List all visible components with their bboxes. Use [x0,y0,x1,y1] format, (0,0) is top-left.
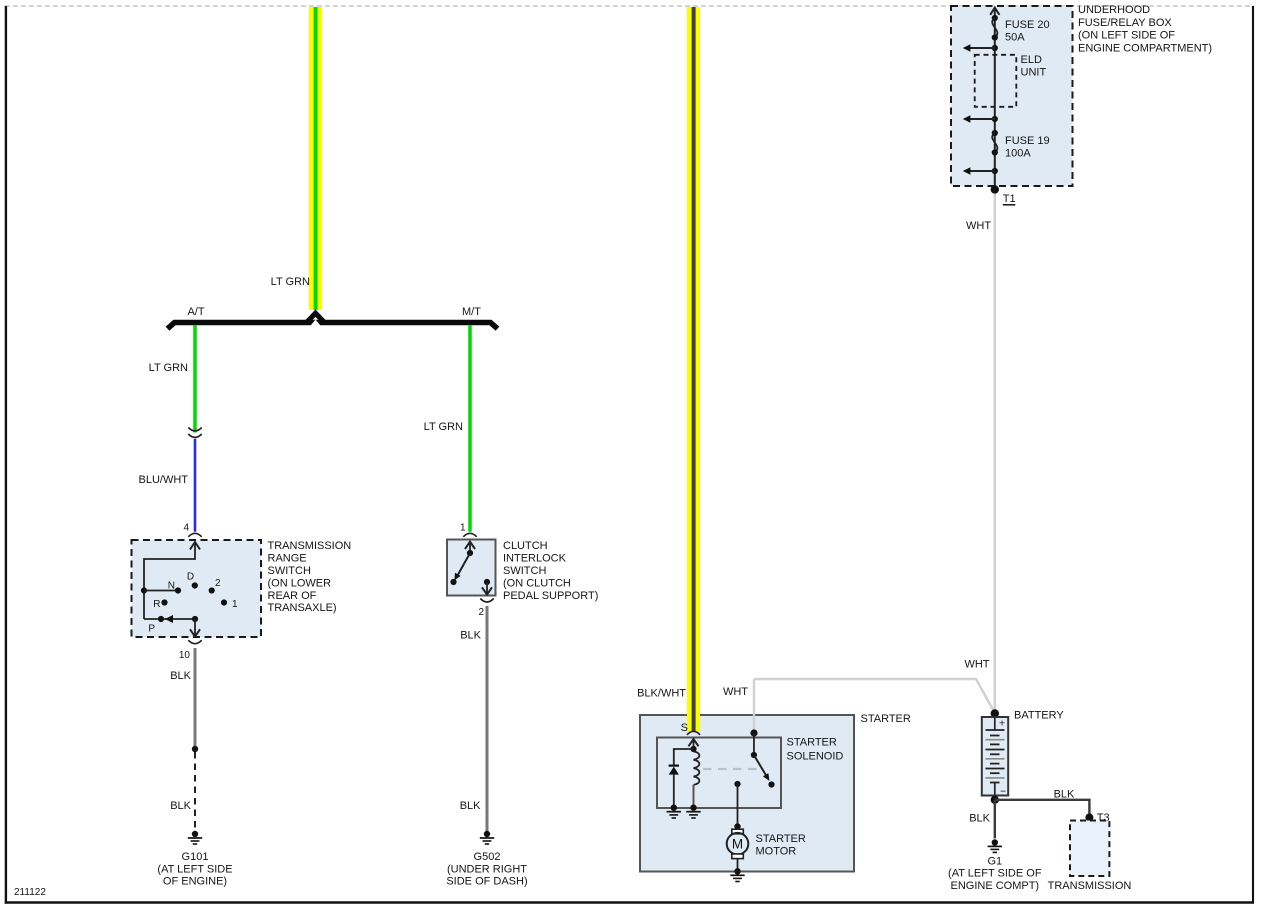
underhood fuse/relay box [951,6,1073,186]
svg-text:BLK: BLK [1054,788,1075,800]
svg-text:N: N [168,581,175,592]
svg-text:ENGINE COMPARTMENT): ENGINE COMPARTMENT) [1078,43,1212,55]
svg-text:LT GRN: LT GRN [424,421,463,433]
pin 10 connector arc [188,640,201,644]
node coil ground [690,805,696,811]
node tap3 [992,168,998,174]
clutch interlock switch box [447,540,496,596]
node fuse20 top [992,15,998,21]
svg-text:LT GRN: LT GRN [149,362,188,374]
ground G1 [988,839,1002,852]
switch blade [458,553,471,576]
blade arrowhead [763,773,770,781]
splice chevron [307,313,325,322]
svg-text:1: 1 [232,599,238,610]
node tap2 [992,116,998,122]
top arrow up [990,8,999,15]
battery box [982,717,1008,796]
diode D1 [669,766,679,808]
exit arrow pin 2 [482,587,492,594]
node blade pivot [467,550,473,556]
svg-text:RANGE: RANGE [268,553,307,565]
wire BLK G502 [486,606,489,831]
tap3 arrow left [963,167,995,175]
bottom border [5,901,1254,904]
entry arrow pin 1 [465,542,475,549]
coil L1 [694,751,700,785]
svg-text:ELD: ELD [1021,54,1042,66]
solenoid switch blade [754,755,766,775]
svg-text:UNIT: UNIT [1021,66,1047,78]
pin 1 connector arc [463,533,476,537]
svg-text:T1: T1 [1003,193,1016,205]
svg-text:STARTER: STARTER [756,833,806,845]
starter box [640,715,854,872]
node terminal T1 [991,185,999,193]
svg-text:G502: G502 [474,851,501,863]
wire P row [144,618,195,620]
wire BLK/WHT core [692,7,696,731]
node common-N junction [141,587,147,593]
node P contact [158,616,164,622]
svg-text:TRANSAXLE): TRANSAXLE) [268,602,337,614]
wire BLK/WHT (yellow highlight) [687,7,700,731]
node diode ground [671,805,677,811]
svg-text:PEDAL SUPPORT): PEDAL SUPPORT) [503,590,598,602]
splice notch [310,320,320,326]
svg-text:BLK: BLK [170,800,191,812]
transmission range switch box [132,540,262,637]
solenoid entry arrow [689,739,699,746]
ground symbol left [667,812,681,818]
svg-text:SOLENOID: SOLENOID [787,750,844,762]
wire LT GRN trunk (yellow highlight) [309,7,322,310]
node fuse19 top [992,130,998,136]
node 1 contact [221,599,227,605]
node 2 contact [209,587,215,593]
svg-text:(AT LEFT SIDE OF: (AT LEFT SIDE OF [948,868,1042,880]
wire BLK battery to G1 [994,800,996,839]
svg-text:(ON LEFT SIDE OF: (ON LEFT SIDE OF [1078,30,1175,42]
wire pin 2 drop [486,582,488,594]
wire LT GRN A/T branch [193,326,197,433]
svg-text:10: 10 [179,650,191,661]
ground symbol motor [730,875,744,881]
svg-text:+: + [999,718,1005,730]
svg-text:OF ENGINE): OF ENGINE) [163,876,227,888]
node switch top [750,729,757,736]
wire WHT horizontal run [754,679,995,713]
svg-text:(AT LEFT SIDE: (AT LEFT SIDE [157,863,232,875]
ground symbol right [686,812,700,818]
svg-text:FUSE 19: FUSE 19 [1005,135,1050,147]
pin 4 connector arc [188,533,201,537]
svg-text:TRANSMISSION: TRANSMISSION [1048,880,1132,892]
svg-text:D: D [187,572,194,583]
wire coil bottom [693,785,695,808]
ground G101 [188,831,202,844]
node D contact [192,582,198,588]
ELD unit box [975,55,1017,107]
svg-text:WHT: WHT [723,686,748,698]
svg-text:UNDERHOOD: UNDERHOOD [1078,4,1150,16]
svg-text:P: P [148,624,155,635]
exit arrow pin 10 [190,629,200,636]
svg-text:M/T: M/T [462,306,481,318]
svg-text:INTERLOCK: INTERLOCK [503,553,567,565]
wire to N contact [144,590,178,592]
svg-text:CLUTCH: CLUTCH [503,540,548,552]
svg-text:LT GRN: LT GRN [271,276,310,288]
svg-text:BLU/WHT: BLU/WHT [139,474,189,486]
node tap1 [992,45,998,51]
svg-text:M: M [732,837,743,852]
svg-text:R: R [153,599,160,610]
svg-text:BATTERY: BATTERY [1014,709,1064,721]
svg-text:STARTER: STARTER [861,713,911,725]
blade arrowhead [454,573,460,581]
switch S1 internals: entry arrow [190,542,200,550]
svg-text:211122: 211122 [14,887,46,898]
wire BLK dashed to G101 [194,752,196,828]
fuse 19 element [992,133,997,153]
wire shaft to coil [693,740,695,750]
mechanical link dashed [703,768,762,770]
inline connector C1 arcs [188,428,201,431]
svg-text:SWITCH: SWITCH [503,565,546,577]
node pin10 junction [192,616,198,622]
left border [5,6,7,904]
node coil top junction [690,746,696,752]
svg-text:WHT: WHT [964,659,989,671]
svg-text:REAR OF: REAR OF [268,590,317,602]
node fuse19 bottom [992,149,998,155]
fuse 20 element [992,18,997,38]
node battery negative junction [991,796,999,804]
node motor contact [734,781,740,787]
svg-text:−: − [1000,786,1006,798]
tap2 arrow left [963,115,995,123]
node blade end [768,781,774,787]
svg-text:2: 2 [478,607,484,618]
svg-text:SWITCH: SWITCH [268,565,311,577]
node R contact [161,599,167,605]
svg-text:G1: G1 [987,855,1002,867]
svg-text:ENGINE COMPT): ENGINE COMPT) [950,880,1039,892]
svg-text:BLK: BLK [460,800,481,812]
wire BLK G101 upper [194,648,197,749]
transmission box [1070,821,1109,877]
node battery positive junction [991,709,999,717]
svg-text:1: 1 [460,523,466,534]
svg-text:STARTER: STARTER [787,736,837,748]
svg-text:2: 2 [215,578,221,589]
wire pin10 drop [194,619,196,636]
svg-text:100A: 100A [1005,147,1031,159]
wire entry shaft [144,543,195,620]
svg-text:TRANSMISSION: TRANSMISSION [268,540,352,552]
svg-text:G101: G101 [182,851,209,863]
node N contact [175,587,181,593]
starter solenoid inner box [657,738,781,809]
wire WHT from T1 to battery [994,194,996,712]
svg-text:FUSE/RELAY BOX: FUSE/RELAY BOX [1078,17,1172,29]
node splice [192,746,198,752]
splice bar [168,323,498,329]
svg-text:MOTOR: MOTOR [756,846,797,858]
svg-text:S: S [681,722,688,734]
pin 2 connector arc [480,599,493,603]
svg-text:BLK: BLK [170,670,191,682]
node blade pivot [751,752,757,758]
svg-text:(UNDER RIGHT: (UNDER RIGHT [447,863,527,875]
svg-text:A/T: A/T [187,306,204,318]
wire entry shaft [469,542,471,553]
svg-text:WHT: WHT [966,220,991,232]
arrow wiper P [165,615,173,623]
wire motor feed [737,784,739,827]
svg-text:BLK: BLK [969,812,990,824]
wire BLK battery to T3 [995,800,1090,818]
wire LT GRN M/T branch [468,326,472,532]
top dashed border [5,5,1254,7]
starter motor M1 [727,823,749,874]
svg-text:(ON LOWER: (ON LOWER [268,577,332,589]
node fuse20 bottom [992,34,998,40]
right border [1252,6,1254,904]
wire switch feed [753,733,755,755]
battery internals [986,717,1005,796]
svg-text:BLK: BLK [460,629,481,641]
wire LT GRN trunk core [314,7,318,310]
ground G502 [480,831,494,844]
terminal S connector arc [687,731,700,735]
wire to diode branch [674,749,694,765]
svg-text:BLK/WHT: BLK/WHT [637,688,686,700]
svg-text:FUSE 20: FUSE 20 [1005,19,1050,31]
svg-text:50A: 50A [1005,31,1025,43]
svg-text:4: 4 [183,523,189,534]
tap1 arrow left [963,44,995,52]
node left contact [450,579,456,585]
node terminal T3 [1085,813,1093,821]
main bus wire [994,8,996,190]
node right contact pin 2 [484,579,490,585]
svg-text:SIDE OF DASH): SIDE OF DASH) [446,876,527,888]
wire BLU/WHT [194,439,197,532]
wire WHT vertical into starter [753,679,755,733]
svg-text:(ON CLUTCH: (ON CLUTCH [503,577,571,589]
